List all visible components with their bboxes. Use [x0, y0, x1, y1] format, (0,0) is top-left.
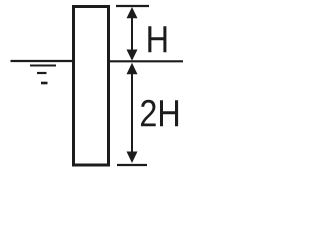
dimension arrow 2H (double-headed, water surface to bottom line)	[127, 63, 138, 163]
wire: top reference line	[116, 5, 149, 7]
wire: water surface line (right)	[109, 60, 183, 62]
wire: bottom reference line	[117, 164, 147, 166]
dimension arrow H (double-headed, top line to water surface)	[127, 7, 138, 61]
wire: water surface line (left)	[11, 60, 74, 62]
plate (vertical rectangular gate)	[74, 7, 109, 166]
water surface hatch line 2	[30, 65, 56, 67]
label H	[148, 26, 166, 52]
water surface hatch line 3	[37, 72, 47, 74]
water surface hatch dash 4	[41, 82, 48, 85]
label 2H	[141, 100, 178, 127]
